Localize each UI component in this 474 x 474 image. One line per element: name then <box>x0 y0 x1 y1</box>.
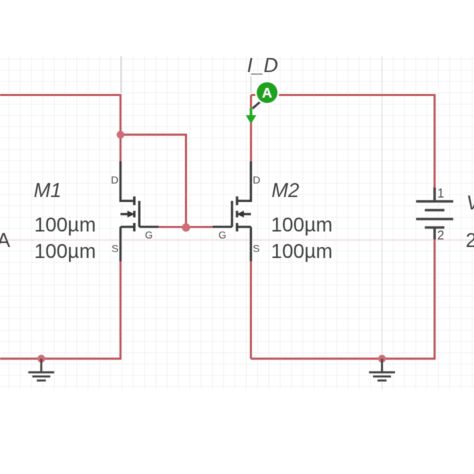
svg-text:D: D <box>253 175 261 187</box>
svg-text:M2: M2 <box>272 180 300 202</box>
ammeter probe direction arrow <box>250 108 253 117</box>
node junction dot gate center <box>182 223 190 231</box>
ammeter probe diagonal pointer <box>253 102 261 109</box>
wire gate net <box>159 226 213 228</box>
canvas grid band <box>0 56 474 389</box>
leader line I_D probe <box>250 76 252 93</box>
wire top-left rail <box>0 95 121 162</box>
battery V1 <box>416 188 453 240</box>
node junction dot drain-gate <box>117 131 125 139</box>
svg-text:S: S <box>111 243 118 255</box>
ground GND right <box>369 359 395 381</box>
svg-text:100µm: 100µm <box>271 214 333 236</box>
svg-text:G: G <box>145 230 153 241</box>
wire drain-to-gate branch <box>121 135 187 228</box>
svg-text:I_D: I_D <box>247 55 278 77</box>
svg-text:D: D <box>111 175 119 187</box>
leader line left net label <box>120 56 122 93</box>
axis line y=240 <box>0 239 474 241</box>
ammeter probe circle <box>255 81 279 105</box>
node junction dot left ground <box>37 355 45 363</box>
svg-text:1: 1 <box>437 187 444 201</box>
transistor M1 <box>121 161 159 261</box>
svg-text:M1: M1 <box>34 180 62 202</box>
node junction dot right ground <box>378 355 386 363</box>
ground GND left <box>28 359 54 381</box>
svg-text:V2: V2 <box>466 193 474 215</box>
wire battery to ground rail <box>251 239 435 359</box>
svg-text:S: S <box>253 243 260 255</box>
svg-text:2V: 2V <box>466 230 474 252</box>
svg-text:2: 2 <box>437 229 444 243</box>
transistor M1 arrow <box>127 211 134 218</box>
svg-text:G: G <box>219 230 227 241</box>
wire M2 source down <box>250 261 252 359</box>
wire ammeter vertical <box>250 95 252 162</box>
svg-text:A: A <box>262 85 272 101</box>
svg-text:100µm: 100µm <box>271 241 333 263</box>
svg-text:A: A <box>0 230 11 252</box>
wire M1 source to ground rail <box>0 261 121 359</box>
wire top-right rail <box>251 95 435 188</box>
svg-text:100µm: 100µm <box>34 214 96 236</box>
transistor M2 <box>213 161 251 261</box>
svg-text:100µm: 100µm <box>34 241 96 263</box>
transistor M2 arrow <box>237 211 244 218</box>
axis line x=382 <box>381 56 383 389</box>
